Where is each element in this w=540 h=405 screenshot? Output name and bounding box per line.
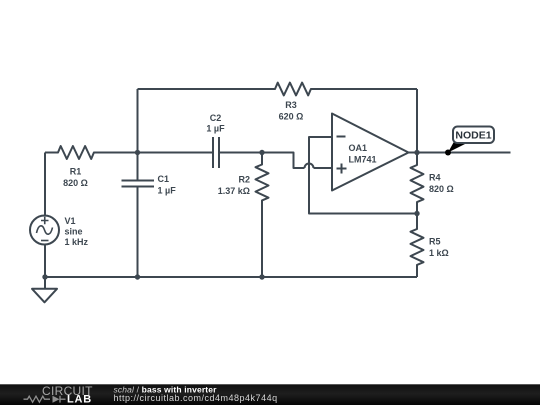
svg-text:NODE1: NODE1 <box>455 130 491 142</box>
svg-text:C1: C1 <box>158 174 170 184</box>
svg-text:R3: R3 <box>285 100 297 110</box>
svg-text:820 Ω: 820 Ω <box>429 184 454 194</box>
svg-text:C2: C2 <box>210 113 222 123</box>
svg-text:R2: R2 <box>238 175 250 185</box>
svg-text:LAB: LAB <box>67 394 92 405</box>
svg-text:R4: R4 <box>429 173 441 183</box>
svg-text:sine: sine <box>65 227 83 237</box>
svg-text:LM741: LM741 <box>349 155 377 165</box>
svg-text:R1: R1 <box>70 167 82 177</box>
svg-text:1 kΩ: 1 kΩ <box>429 248 449 258</box>
svg-text:R5: R5 <box>429 237 441 247</box>
svg-text:http://circuitlab.com/cd4m48p4: http://circuitlab.com/cd4m48p4k744q <box>114 393 278 403</box>
svg-text:1 kHz: 1 kHz <box>65 237 89 247</box>
svg-text:1 µF: 1 µF <box>158 186 177 196</box>
svg-text:820 Ω: 820 Ω <box>63 178 88 188</box>
svg-text:OA1: OA1 <box>349 143 368 153</box>
svg-text:1.37 kΩ: 1.37 kΩ <box>218 186 250 196</box>
svg-text:V1: V1 <box>65 216 76 226</box>
svg-text:1 µF: 1 µF <box>206 124 225 134</box>
svg-text:620 Ω: 620 Ω <box>279 112 304 122</box>
